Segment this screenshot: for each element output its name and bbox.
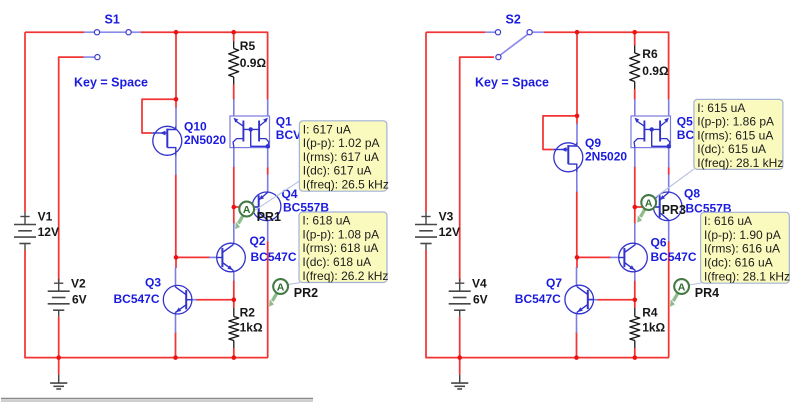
svg-text:A: A	[277, 281, 285, 293]
svg-text:BC547C: BC547C	[114, 292, 160, 306]
svg-text:BC547C: BC547C	[515, 292, 561, 306]
transistor Q4 (PNP)	[252, 192, 281, 221]
wire Q6 base from rail node	[577, 256, 611, 258]
svg-text:6V: 6V	[72, 293, 87, 307]
wire main rail x577 from top node down to gate-loop node	[576, 32, 578, 116]
svg-text:I(p-p): 1.02 pA: I(p-p): 1.02 pA	[303, 136, 380, 150]
svg-text:0.9Ω: 0.9Ω	[642, 64, 669, 78]
wire main rail x176 from top node down to gate-loop node	[175, 32, 177, 99]
node S1/rail junction	[174, 30, 179, 35]
pin stub Q3 collector	[175, 267, 177, 286]
transistor Q8 (PNP)	[653, 192, 682, 221]
pin stub R6 to Q5 left emitter	[634, 99, 636, 116]
transistor Q9 (p-JFET)	[554, 143, 583, 172]
probe PR1	[238, 216, 242, 224]
pin stub top wire to Q5 right emitter	[668, 99, 670, 116]
wire top from R6 node to top-right corner	[635, 32, 669, 100]
pin stub Q8 collector	[668, 220, 670, 241]
svg-text:2N5020: 2N5020	[585, 150, 627, 164]
tooltip PR2 measurements	[299, 212, 387, 283]
svg-text:6V: 6V	[473, 293, 488, 307]
pin stub Q4 base	[251, 206, 258, 208]
transistor Q6 (NPN)	[619, 243, 648, 272]
leader line tooltip2 to PR2	[288, 283, 300, 285]
wire node257 to Q7 collector	[576, 257, 578, 268]
node R5 top junction	[231, 30, 236, 35]
svg-text:1kΩ: 1kΩ	[240, 321, 263, 335]
pin stub Q4 emitter	[267, 175, 269, 193]
wire rail into Q9 drain	[576, 116, 578, 125]
pin stub R5 to Q1 left emitter	[233, 99, 235, 116]
wire V3 rail left side down	[425, 32, 427, 212]
pin stub top wire to Q1 right emitter	[267, 99, 269, 116]
svg-text:I(dc): 617 uA: I(dc): 617 uA	[303, 164, 372, 178]
wire Q4 collector down right branch	[267, 241, 269, 358]
pin stub Q5 left collector	[634, 148, 636, 167]
svg-text:A: A	[243, 204, 251, 216]
wire ground stub below bottom rail	[58, 358, 60, 375]
wire top-left from V3 rail to switch S2	[426, 31, 485, 33]
switch S2 lower throw contact	[496, 55, 501, 60]
wire Q1 left collector down to Q4 base node	[233, 166, 235, 207]
pin stub Q5 right collector	[668, 148, 670, 168]
svg-text:I(freq): 26.2 kHz: I(freq): 26.2 kHz	[302, 269, 388, 283]
wire Q4-base node down to Q2 collector	[233, 207, 235, 224]
tooltip PR3 measurements	[694, 99, 783, 169]
switch S2 contact right	[527, 30, 532, 35]
leader line tooltip4 to PR4	[689, 283, 702, 285]
ground symbol (left)	[58, 375, 60, 384]
wire V1 rail left side down	[24, 32, 26, 212]
switch S1 lower throw contact	[95, 55, 100, 60]
wire Q3 emitter down to bottom rail	[175, 332, 177, 358]
transistor Q1 (dual PNP BCV62)	[230, 116, 270, 148]
wire from S2 lower throw to V4 rail	[460, 57, 494, 282]
wire from S2 to node at x577	[544, 31, 577, 33]
pin stub S2 right wire	[532, 31, 544, 33]
switch S2 lever (thrown to lower contact)	[500, 34, 527, 55]
svg-text:PR3: PR3	[662, 203, 686, 217]
pin stub Q4 collector	[267, 220, 269, 241]
wire R5 bottom to Q1 pin	[233, 85, 235, 100]
tooltip PR1 measurements	[299, 121, 387, 191]
resistor R5	[233, 41, 235, 49]
svg-text:12V: 12V	[38, 225, 59, 239]
node Q2 base / Q3 collector junction	[174, 255, 179, 260]
wire Q6 emitter down to Q7 base node	[634, 280, 636, 308]
battery V2	[58, 279, 60, 292]
resistor R2	[233, 308, 235, 317]
wire top between node 176 and R5 top node	[176, 31, 234, 33]
svg-text:12V: 12V	[439, 225, 460, 239]
pin stub S1 lower throw	[84, 56, 95, 58]
svg-text:I: 617 uA: I: 617 uA	[303, 122, 351, 136]
tooltip PR4 measurements	[701, 212, 790, 283]
switch S1 contact right	[126, 30, 131, 35]
svg-text:I(p-p): 1.86 pA: I(p-p): 1.86 pA	[697, 115, 774, 129]
wire Q4 base from node	[234, 206, 252, 208]
svg-text:Q9: Q9	[585, 136, 601, 150]
pin stub Q3 emitter	[175, 314, 177, 333]
pin stub Q3 base	[188, 299, 197, 301]
node V2/ground on bottom rail	[56, 355, 61, 360]
svg-text:A: A	[678, 281, 686, 293]
wire bottom rail left circuit	[24, 357, 268, 359]
wire V4 rail below battery to bottom rail	[459, 317, 461, 358]
node R4 on bottom rail	[633, 355, 638, 360]
svg-text:I(rms): 615 uA: I(rms): 615 uA	[697, 128, 773, 142]
wire R4 bottom lead to bottom rail	[634, 348, 636, 358]
wire Q1 right collector red segment	[267, 167, 269, 175]
pin stub Q6 base	[610, 256, 618, 258]
svg-text:Q7: Q7	[546, 276, 562, 290]
svg-text:I(p-p): 1.90 pA: I(p-p): 1.90 pA	[704, 228, 781, 242]
svg-text:I: 615 uA: I: 615 uA	[697, 101, 745, 115]
svg-text:I(p-p): 1.08 pA: I(p-p): 1.08 pA	[302, 227, 379, 241]
wire R2 bottom lead to bottom rail	[233, 348, 235, 358]
transistor Q3 (NPN mirrored)	[163, 285, 192, 314]
node Q3 base / R2 junction	[232, 297, 237, 302]
pin stub S1 right wire	[131, 31, 141, 33]
wire from S1 to node at x176	[141, 31, 176, 33]
svg-text:V2: V2	[71, 276, 86, 290]
transistor Q2 (NPN)	[217, 243, 246, 272]
wire Q2 emitter down to Q3 base node	[233, 280, 235, 308]
svg-text:0.9Ω: 0.9Ω	[240, 56, 267, 70]
node Q7 base / R4 junction	[633, 297, 638, 302]
wire node257 to Q3 collector	[175, 257, 177, 268]
svg-text:Q3: Q3	[145, 276, 161, 290]
wire ground stub below bottom rail (right)	[459, 358, 461, 375]
transistor Q7 (NPN mirrored)	[565, 285, 594, 314]
wire V2 rail below battery to bottom rail	[58, 317, 60, 358]
wire R5 top lead	[233, 32, 235, 41]
pin stub Q8 emitter	[668, 175, 670, 193]
wire Q5 right collector red segment	[668, 167, 670, 175]
pin stub Q7 emitter	[576, 314, 578, 333]
node gate loop junction (right)	[575, 114, 580, 119]
wire top between node 577 and R6 top node	[577, 31, 635, 33]
battery V4	[459, 279, 461, 292]
svg-text:Q2: Q2	[250, 234, 266, 248]
wire Q8 base from node	[635, 206, 653, 208]
svg-text:1kΩ: 1kΩ	[642, 321, 665, 335]
svg-text:I: 618 uA: I: 618 uA	[302, 214, 350, 228]
ground symbol (right)	[459, 375, 461, 384]
switch S1 contact left	[94, 30, 99, 35]
pin stub S2 left wire	[485, 31, 495, 33]
wire Q2 base from rail node	[176, 256, 210, 258]
wire Q10 source down to node at y257	[175, 174, 177, 257]
svg-text:Q5: Q5	[677, 115, 693, 129]
pin stub Q10 drain	[175, 107, 177, 127]
grey partial border line at bottom	[1, 397, 313, 399]
wire R6 bottom to Q5 pin	[634, 89, 636, 100]
wire bottom rail right circuit	[425, 357, 669, 359]
pin stub Q9 gate	[553, 149, 555, 151]
svg-text:I(rms): 617 uA: I(rms): 617 uA	[303, 150, 379, 164]
pin stub Q8 base	[652, 206, 659, 208]
battery V3	[425, 212, 427, 225]
pin stub Q6 collector	[634, 223, 636, 244]
wire Q5 left collector down to Q8 base node	[634, 166, 636, 207]
wire Q7 base to node	[597, 299, 635, 301]
transistor Q10 (p-JFET)	[153, 126, 182, 155]
svg-text:S2: S2	[506, 13, 521, 27]
transistor Q5 (dual PNP BCV62)	[631, 116, 671, 148]
wire Q7 emitter down to bottom rail	[576, 332, 578, 358]
svg-text:A: A	[645, 197, 653, 209]
leader line tooltip3 to PR3	[653, 169, 694, 199]
probe PR2	[272, 293, 276, 301]
node Q3 emitter on bottom rail	[173, 355, 178, 360]
node Q6 base / Q7 collector junction	[575, 255, 580, 260]
switch S1 lever (closed)	[100, 31, 126, 33]
resistor R4	[634, 308, 636, 317]
svg-text:2N5020: 2N5020	[184, 133, 226, 147]
node V4/ground on bottom rail	[457, 355, 462, 360]
svg-text:V3: V3	[439, 209, 454, 223]
svg-text:Q6: Q6	[651, 235, 667, 249]
svg-text:Key = Space: Key = Space	[74, 75, 148, 89]
svg-text:I(freq): 28.1 kHz: I(freq): 28.1 kHz	[704, 269, 790, 283]
svg-text:I(dc): 615 uA: I(dc): 615 uA	[697, 142, 766, 156]
svg-text:Q10: Q10	[184, 120, 207, 134]
wire Q10 gate loop	[142, 99, 176, 133]
wire Q9 gate loop	[543, 116, 577, 150]
pin stub Q7 base	[589, 299, 598, 301]
svg-text:BC547C: BC547C	[651, 250, 697, 264]
pin stub Q2 emitter	[233, 272, 235, 281]
pin stub Q2 collector	[233, 223, 235, 244]
svg-text:PR1: PR1	[257, 210, 281, 224]
svg-text:I(rms): 616 uA: I(rms): 616 uA	[704, 242, 780, 256]
node Q7 emitter on bottom rail	[574, 355, 579, 360]
node R6 top junction	[632, 30, 637, 35]
svg-text:Q4: Q4	[282, 187, 298, 201]
pin stub Q2 base	[209, 256, 217, 258]
wire V3 rail below battery to bottom rail	[425, 250, 427, 358]
svg-text:Q8: Q8	[684, 187, 700, 201]
wire from S1 lower throw to V2 rail	[59, 57, 84, 282]
svg-text:R5: R5	[240, 39, 256, 53]
svg-text:Q1: Q1	[276, 115, 292, 129]
pin stub Q6 emitter	[634, 272, 636, 281]
svg-text:V4: V4	[472, 276, 487, 290]
node R2 on bottom rail	[232, 355, 237, 360]
wire Q3 base to node	[196, 299, 234, 301]
pin stub Q1 left collector	[233, 148, 235, 167]
svg-text:I(rms): 618 uA: I(rms): 618 uA	[302, 241, 378, 255]
pin stub S1 left wire	[84, 31, 94, 33]
resistor R6	[634, 46, 636, 54]
svg-text:PR4: PR4	[695, 286, 719, 300]
wire top-left from V1 rail to switch S1	[25, 31, 84, 33]
node Q4 base junction	[232, 205, 237, 210]
svg-text:PR2: PR2	[294, 286, 318, 300]
probe PR4	[673, 293, 677, 301]
svg-text:R2: R2	[240, 305, 256, 319]
probe PR3	[640, 209, 644, 217]
svg-text:I(freq): 26.5 kHz: I(freq): 26.5 kHz	[303, 178, 389, 192]
pin stub Q10 source	[175, 155, 177, 175]
wire Q8 collector down right branch	[668, 241, 670, 358]
switch S2 contact left	[495, 30, 500, 35]
pin stub Q9 source	[576, 172, 578, 193]
wire Q9 source down to node at y257	[576, 191, 578, 257]
svg-text:Key = Space: Key = Space	[475, 75, 549, 89]
node Q8 base junction	[633, 205, 638, 210]
leader line tooltip1 to PR1	[249, 181, 299, 214]
svg-text:I: 616 uA: I: 616 uA	[704, 214, 752, 228]
svg-text:S1: S1	[105, 13, 120, 27]
node gate loop junction	[174, 97, 179, 102]
svg-text:BC547C: BC547C	[251, 250, 297, 264]
svg-text:I(freq): 28.1 kHz: I(freq): 28.1 kHz	[697, 156, 783, 170]
svg-text:R6: R6	[642, 47, 658, 61]
wire rail into Q10 drain	[175, 99, 177, 108]
pin stub Q1 right collector	[267, 148, 269, 168]
battery V1	[24, 212, 26, 225]
grey partial band fill at bottom	[1, 399, 313, 402]
node S2/rail junction	[575, 30, 580, 35]
pin stub Q9 drain	[576, 124, 578, 144]
pin stub Q7 collector	[576, 267, 578, 286]
svg-text:V1: V1	[38, 209, 53, 223]
wire Q8-base node down to Q6 collector	[634, 207, 636, 224]
svg-text:I(dc): 618 uA: I(dc): 618 uA	[302, 255, 371, 269]
wire V1 rail below battery to bottom rail	[24, 250, 26, 358]
svg-text:R4: R4	[642, 305, 658, 319]
svg-text:I(dc): 616 uA: I(dc): 616 uA	[704, 256, 773, 270]
wire R6 top lead	[634, 32, 636, 45]
pin stub Q10 gate	[152, 132, 154, 134]
wire top from R5 node to top-right corner	[234, 32, 268, 100]
